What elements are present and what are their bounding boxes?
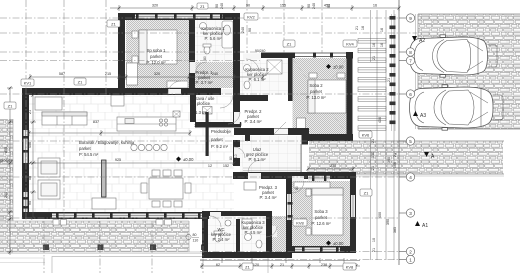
- svg-text:80: 80: [193, 233, 197, 237]
- svg-text:90: 90: [239, 122, 243, 126]
- svg-text:837: 837: [93, 120, 99, 124]
- svg-text:8: 8: [409, 50, 412, 55]
- soba3 top window: [308, 176, 330, 181]
- svg-text:21: 21: [387, 78, 391, 82]
- soba2 diagonals: [292, 58, 347, 134]
- svg-text:152: 152: [223, 124, 229, 128]
- svg-text:3: 3: [409, 211, 412, 216]
- svg-text:210: 210: [234, 154, 238, 160]
- svg-text:152: 152: [223, 164, 229, 168]
- svg-text:390: 390: [387, 157, 391, 163]
- svg-text:12: 12: [208, 164, 212, 168]
- shower kupaonica 2: [267, 60, 282, 74]
- svg-text:±0.00: ±0.00: [183, 157, 194, 162]
- svg-text:Z1: Z1: [245, 265, 250, 270]
- svg-text:Soba 3: Soba 3: [314, 209, 328, 214]
- wall over ostava: [196, 88, 221, 95]
- svg-text:90: 90: [246, 4, 250, 8]
- ulaz/path boundary line: [301, 144, 302, 172]
- svg-text:ker pločice: ker pločice: [190, 101, 211, 106]
- left dim column: [9, 88, 11, 255]
- toilet k1: [204, 46, 210, 54]
- svg-text:240: 240: [241, 27, 245, 33]
- predpr1 stipple: [195, 62, 234, 88]
- 238 dim: [308, 168, 353, 170]
- svg-text:925: 925: [115, 158, 121, 162]
- soba3 left wall: [286, 179, 292, 253]
- svg-text:240: 240: [312, 3, 316, 9]
- svg-text:P: 54.5 m²: P: 54.5 m²: [79, 152, 99, 157]
- wall south of 9.2 room top: [195, 122, 241, 128]
- door dim 80/110: [186, 233, 199, 243]
- svg-text:P: 6.1 m²: P: 6.1 m²: [249, 157, 267, 162]
- svg-text:150: 150: [371, 152, 375, 158]
- soba3 left window: [287, 194, 291, 220]
- sp soba1 right wall / bath left: [189, 20, 195, 88]
- svg-text:80: 80: [229, 156, 233, 160]
- svg-text:6: 6: [409, 92, 412, 97]
- terrace stones bottom-left: [0, 221, 202, 254]
- soba3 right window: [351, 195, 355, 217]
- svg-text:KV8: KV8: [296, 221, 304, 226]
- svg-text:400: 400: [378, 212, 382, 218]
- svg-text:parket: parket: [150, 54, 162, 59]
- svg-text:21: 21: [393, 153, 397, 157]
- svg-text:16: 16: [361, 26, 365, 30]
- svg-text:KV8: KV8: [346, 265, 354, 270]
- shaft 1.3: [173, 111, 180, 117]
- fence posts column: [390, 14, 396, 131]
- svg-text:P: 3.4 m²: P: 3.4 m²: [260, 195, 278, 200]
- svg-text:21: 21: [372, 56, 376, 60]
- svg-text:Sp soba 1: Sp soba 1: [147, 48, 167, 53]
- svg-text:215: 215: [105, 72, 111, 76]
- top wall top block: [118, 13, 240, 20]
- soba 3 stipple: [292, 181, 350, 246]
- wardrobe soba2: [297, 118, 306, 134]
- kupaonica 3 fixtures: [242, 219, 252, 229]
- k2 fixtures: [244, 65, 251, 72]
- wall below soba2 (top of path): [302, 134, 353, 141]
- svg-text:240: 240: [4, 192, 8, 198]
- row y=77: [30, 76, 263, 78]
- svg-text:385: 385: [393, 227, 397, 233]
- svg-text:400: 400: [378, 117, 382, 123]
- svg-text:21: 21: [28, 110, 32, 114]
- car A3 bottom: [410, 85, 504, 130]
- stone path right-middle: [309, 141, 504, 176]
- bed soba 3: [312, 188, 343, 235]
- big window bottom wall living: [52, 214, 202, 218]
- svg-text:238: 238: [330, 164, 336, 168]
- central spine wall: [233, 13, 240, 127]
- soba 2 stipple: [293, 58, 347, 134]
- parking paving top-right: [416, 14, 520, 129]
- svg-text:4: 4: [409, 175, 412, 180]
- svg-text:KV4: KV4: [346, 42, 354, 47]
- svg-text:21: 21: [355, 26, 359, 30]
- svg-text:KV2: KV2: [247, 15, 255, 20]
- left stone strip: [0, 119, 13, 221]
- bathroom tile floors (kupaonica1, kupaonica2, wc, kupaonica3): [195, 20, 233, 62]
- svg-text:P: 12.6 m²: P: 12.6 m²: [311, 221, 331, 226]
- svg-text:70: 70: [266, 229, 270, 233]
- section markers: [412, 36, 435, 229]
- svg-text:P: 5.6 m²: P: 5.6 m²: [205, 36, 223, 41]
- svg-text:120: 120: [253, 263, 259, 267]
- svg-text:Soba 2: Soba 2: [309, 83, 323, 88]
- svg-text:P: 4.5 m²: P: 4.5 m²: [245, 230, 263, 235]
- top dim row: [110, 7, 399, 9]
- wall south of ulaz: [233, 172, 356, 179]
- wc fixtures: [215, 234, 221, 242]
- soba3 south window: [295, 248, 340, 252]
- svg-text:pločice: pločice: [0, 158, 14, 163]
- door arcs: [168, 62, 304, 237]
- svg-text:Z1: Z1: [364, 191, 369, 196]
- bed soba 2: [308, 80, 346, 113]
- interior left dim line: [32, 95, 34, 218]
- island divider: [102, 160, 107, 197]
- window top wall: [135, 15, 223, 19]
- wc/k3 divider: [236, 219, 240, 252]
- bottom dim row: [200, 265, 360, 267]
- svg-text:16: 16: [373, 4, 377, 8]
- wc block left wall: [202, 215, 208, 258]
- svg-text:KV6: KV6: [362, 133, 370, 138]
- svg-text:10: 10: [372, 238, 376, 242]
- ottoman: [92, 198, 116, 209]
- svg-text:P: 9.2 m²: P: 9.2 m²: [211, 144, 229, 149]
- wc block bottom wall: [202, 252, 292, 258]
- dimension diagonal ticks: [9, 7, 401, 268]
- svg-text:A1: A1: [422, 223, 428, 229]
- living bottom wall: [22, 212, 209, 219]
- svg-text:1: 1: [409, 257, 412, 262]
- svg-text:80: 80: [295, 186, 299, 190]
- svg-text:P: 6.1 m²: P: 6.1 m²: [249, 77, 267, 82]
- pool outline below terrace: [52, 257, 268, 273]
- svg-text:P: 3.4 m²: P: 3.4 m²: [245, 119, 263, 124]
- svg-text:16: 16: [380, 28, 384, 32]
- svg-text:100: 100: [393, 162, 397, 168]
- svg-text:155: 155: [280, 4, 286, 8]
- svg-text:Z1: Z1: [8, 104, 13, 109]
- svg-text:A3: A3: [420, 113, 426, 119]
- svg-text:21: 21: [280, 263, 284, 267]
- living dim line: [30, 162, 234, 164]
- ulaz grez tiles: [240, 136, 302, 174]
- terrace posts: [43, 245, 49, 251]
- svg-text:21: 21: [372, 248, 376, 252]
- svg-text:456: 456: [28, 142, 32, 148]
- svg-text:90: 90: [248, 28, 252, 32]
- svg-text:KV1: KV1: [24, 81, 32, 86]
- svg-text:390: 390: [386, 219, 390, 225]
- svg-text:P: 3.7 m²: P: 3.7 m²: [196, 80, 214, 85]
- svg-text:P: 1.3 m²: P: 1.3 m²: [190, 110, 208, 115]
- living room parquet: [29, 95, 234, 212]
- svg-text:587: 587: [59, 72, 65, 76]
- svg-text:240: 240: [212, 72, 218, 76]
- svg-text:parket: parket: [211, 137, 223, 142]
- svg-text:90/240: 90/240: [255, 49, 265, 53]
- sink k1: [200, 23, 207, 30]
- ulaz entry pillar: [302, 134, 309, 145]
- small table on terrace: [53, 220, 172, 226]
- svg-text:855: 855: [4, 147, 8, 153]
- bathtub kupaonica1: [222, 21, 233, 48]
- bed sp soba 1: [139, 30, 177, 64]
- wardrobe soba 3: [294, 182, 330, 188]
- left wall top block: [118, 13, 125, 95]
- sideboard top-left: [35, 97, 62, 110]
- entry door gap: [243, 54, 261, 60]
- svg-text:320: 320: [152, 4, 158, 8]
- svg-text:240: 240: [220, 3, 224, 9]
- wardrobe sp soba1: [127, 63, 138, 85]
- wall predpr2 to ulaz: [234, 128, 309, 135]
- svg-text:±0.00: ±0.00: [333, 65, 344, 70]
- svg-text:A2: A2: [419, 38, 425, 44]
- soba3 right wall: [350, 175, 356, 253]
- svg-text:2: 2: [409, 249, 412, 254]
- k3 right wall: [266, 211, 272, 253]
- level markers: [176, 64, 344, 246]
- svg-text:±0.00: ±0.00: [333, 241, 344, 246]
- svg-text:16: 16: [372, 43, 376, 47]
- kitchen counter: [117, 117, 176, 131]
- svg-text:P: 12.0 m²: P: 12.0 m²: [146, 60, 166, 65]
- wc top wall: [202, 211, 272, 216]
- svg-text:Boravak / Blagovanje, kuhinja: Boravak / Blagovanje, kuhinja: [79, 140, 135, 145]
- svg-text:parket: parket: [79, 146, 91, 151]
- svg-text:5: 5: [409, 139, 412, 144]
- soba2 right wall: [347, 57, 353, 140]
- door size annotations: [203, 49, 299, 233]
- svg-text:P: 13.0 m²: P: 13.0 m²: [306, 95, 326, 100]
- armchairs left: [38, 158, 60, 177]
- svg-text:110: 110: [193, 239, 199, 243]
- soba3 bottom wall: [286, 246, 356, 253]
- predpz3: [244, 182, 256, 190]
- svg-text:P: 2.4 m²: P: 2.4 m²: [213, 237, 231, 242]
- kup2 right wall: [288, 57, 293, 101]
- svg-text:Predsoblje: Predsoblje: [211, 129, 231, 134]
- ulaz threshold: [243, 167, 302, 169]
- svg-text:62: 62: [216, 263, 220, 267]
- predpz3 corridor stipple: [272, 216, 286, 253]
- svg-text:95: 95: [28, 201, 32, 205]
- sofa top-left: [42, 112, 87, 125]
- svg-text:7: 7: [409, 58, 412, 63]
- svg-text:80: 80: [203, 56, 207, 60]
- svg-text:21: 21: [371, 139, 375, 143]
- 9.2 room left wall: [206, 112, 209, 156]
- right dim columns: [376, 10, 378, 260]
- svg-text:16: 16: [380, 43, 384, 47]
- svg-text:90: 90: [215, 4, 219, 8]
- living top wall: [22, 88, 196, 95]
- dining table: [149, 178, 183, 199]
- windows left wall living: [24, 130, 28, 163]
- svg-text:238: 238: [321, 263, 327, 267]
- svg-text:9: 9: [409, 16, 412, 21]
- kup2/predpr2 divider: [233, 95, 268, 101]
- ostava right wall: [190, 95, 196, 122]
- svg-text:Z1: Z1: [287, 42, 292, 47]
- svg-text:75: 75: [194, 124, 198, 128]
- svg-text:parket: parket: [310, 89, 322, 94]
- svg-text:Z1: Z1: [78, 80, 83, 85]
- bar stools: [131, 144, 137, 150]
- svg-text:21: 21: [371, 166, 375, 170]
- svg-text:90: 90: [327, 4, 331, 8]
- car A2 top: [410, 35, 498, 77]
- living left wall: [22, 88, 29, 219]
- svg-text:90: 90: [307, 4, 311, 8]
- sp soba 1 stipple: [126, 20, 190, 88]
- soba2 window band: [261, 53, 295, 59]
- svg-text:320: 320: [154, 72, 160, 76]
- svg-text:58: 58: [28, 176, 32, 180]
- svg-text:Z1: Z1: [111, 22, 116, 27]
- svg-text:Z1: Z1: [200, 4, 205, 9]
- svg-text:12: 12: [208, 124, 212, 128]
- svg-text:parket: parket: [315, 215, 327, 220]
